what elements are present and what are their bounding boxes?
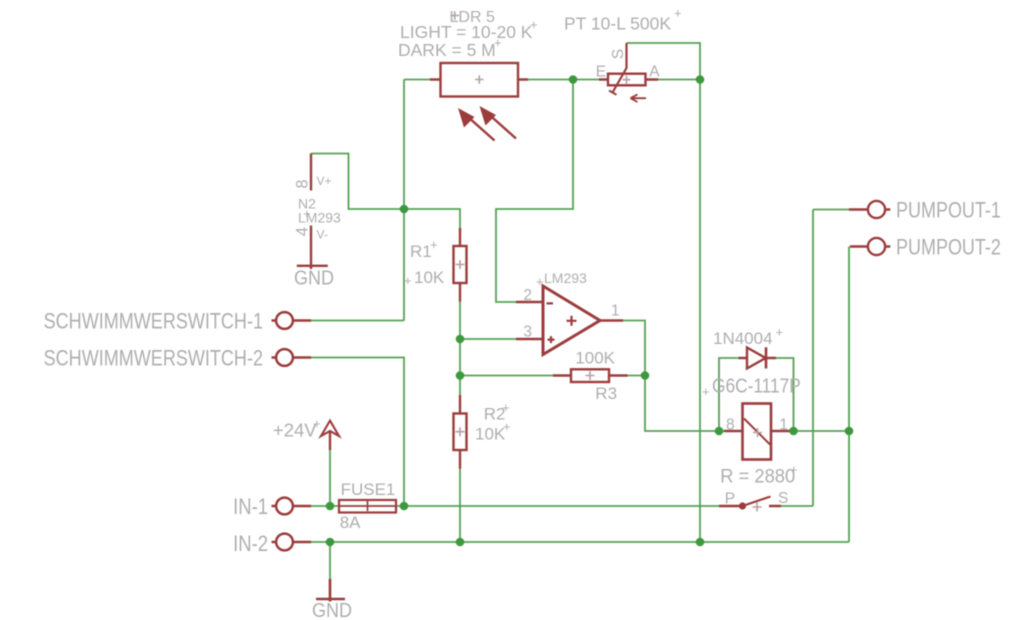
svg-text:PUMPOUT-1: PUMPOUT-1 — [896, 199, 1001, 223]
svg-text:+: + — [702, 384, 710, 399]
svg-text:E: E — [596, 63, 606, 80]
svg-text:+: + — [404, 273, 412, 288]
svg-text:8: 8 — [294, 179, 312, 188]
svg-text:+: + — [313, 416, 321, 431]
svg-text:GND: GND — [312, 600, 352, 620]
svg-text:1: 1 — [611, 303, 620, 320]
svg-text:P: P — [725, 491, 735, 508]
svg-text:8A: 8A — [340, 513, 361, 532]
svg-text:10K: 10K — [475, 425, 506, 444]
svg-text:3: 3 — [523, 324, 532, 341]
svg-text:1: 1 — [779, 417, 788, 434]
svg-text:SCHWIMMWERSWITCH-2: SCHWIMMWERSWITCH-2 — [44, 347, 263, 371]
svg-text:+: + — [494, 35, 502, 50]
svg-text:FUSE1: FUSE1 — [341, 480, 396, 499]
svg-text:DARK = 5 M: DARK = 5 M — [398, 40, 496, 60]
svg-text:1N4004: 1N4004 — [713, 329, 773, 348]
svg-text:S: S — [610, 49, 627, 60]
svg-text:2: 2 — [523, 287, 532, 304]
svg-text:+: + — [674, 6, 682, 21]
svg-text:R = 2880: R = 2880 — [720, 465, 795, 486]
svg-text:+: + — [536, 274, 544, 289]
svg-text:8: 8 — [726, 417, 735, 434]
svg-text:IN-2: IN-2 — [233, 532, 268, 556]
svg-text:PT 10-L 500K: PT 10-L 500K — [564, 14, 671, 34]
svg-text:LDR 5: LDR 5 — [450, 9, 495, 26]
svg-text:+: + — [790, 462, 798, 477]
svg-text:R3: R3 — [595, 384, 617, 403]
svg-text:A: A — [649, 63, 660, 80]
svg-text:IN-1: IN-1 — [233, 495, 268, 519]
svg-text:V-: V- — [317, 228, 328, 242]
svg-text:+: + — [530, 17, 538, 32]
svg-text:G6C-1117P: G6C-1117P — [712, 374, 801, 396]
svg-text:10K: 10K — [414, 268, 445, 287]
svg-text:GND: GND — [294, 268, 334, 290]
svg-text:SCHWIMMWERSWITCH-1: SCHWIMMWERSWITCH-1 — [44, 310, 263, 334]
svg-text:+: + — [430, 237, 438, 252]
svg-text:+: + — [776, 325, 784, 340]
svg-text:4: 4 — [294, 227, 312, 236]
svg-text:100K: 100K — [575, 348, 615, 367]
svg-text:+: + — [503, 419, 511, 434]
svg-text:LM293: LM293 — [544, 270, 587, 286]
svg-text:V+: V+ — [317, 174, 332, 188]
svg-text:+24V: +24V — [273, 420, 317, 441]
svg-text:PUMPOUT-2: PUMPOUT-2 — [896, 236, 1001, 260]
svg-text:+: + — [502, 400, 510, 415]
svg-text:S: S — [778, 490, 788, 507]
svg-text:+: + — [303, 206, 311, 221]
svg-text:R1: R1 — [410, 242, 432, 261]
